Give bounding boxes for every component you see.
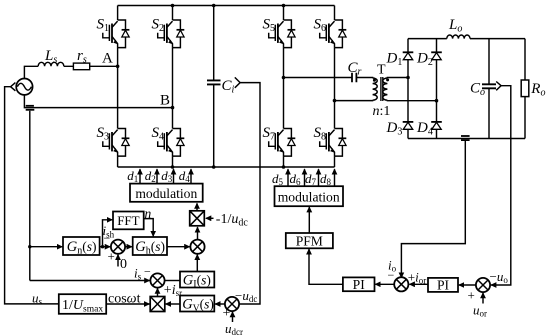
svg-text:n: n <box>145 206 152 221</box>
junction D1 D3 secondary <box>406 76 410 80</box>
wire Gh to multiplier2 <box>167 246 190 248</box>
wire secondary bottom to D leg <box>387 99 436 102</box>
svg-text:uor: uor <box>473 303 487 319</box>
node B <box>160 93 174 110</box>
wire summer udc to GV <box>215 303 225 305</box>
square multiplier -1/udc <box>190 211 205 226</box>
svg-text:D4: D4 <box>416 120 433 138</box>
wire rectifier top rail <box>408 38 525 40</box>
wire secondary top to D leg <box>387 77 408 80</box>
svg-text:T: T <box>377 63 386 78</box>
wire udc sense down <box>239 83 260 304</box>
transistor S4 <box>152 125 185 156</box>
gate drive arrows d1-d4 <box>140 169 191 183</box>
diode D4 <box>416 120 442 138</box>
gate signal labels d5 d6 d7 d8 <box>272 171 332 187</box>
summer3 circle-x <box>150 273 164 287</box>
svg-text:n:1: n:1 <box>373 104 391 119</box>
block Gn(s) <box>63 237 100 257</box>
udcr reference input <box>223 306 244 336</box>
wire source top to node A <box>24 66 117 78</box>
wire PFM to modulation2 <box>308 207 310 233</box>
svg-text:d5: d5 <box>272 171 284 187</box>
gate drive arrows d5-d8 <box>288 169 335 186</box>
junction bottom rail S7 leg <box>282 165 286 169</box>
wire leg2 bottom <box>172 156 174 167</box>
capacitor Ci <box>207 6 235 168</box>
modulation box 1 <box>130 184 203 202</box>
wire GV to square multiplier cos <box>166 303 180 305</box>
wire us sense: tap down left column <box>5 87 58 304</box>
wire GI up to multiplier2 <box>196 255 198 272</box>
svg-text:S4: S4 <box>152 125 165 143</box>
svg-text:us: us <box>32 291 43 307</box>
svg-text:PI: PI <box>353 277 366 292</box>
junction leg4 mid node <box>333 99 337 103</box>
wire leg4 mid <box>334 48 336 129</box>
wire D1 leg <box>407 39 409 78</box>
block PI 1 <box>343 277 375 292</box>
svg-text:−: − <box>388 268 395 282</box>
wire D3 leg <box>407 78 409 139</box>
svg-text:+: + <box>468 288 475 303</box>
wire leg2 collector <box>172 6 174 21</box>
diode D3 <box>386 120 414 138</box>
svg-text:d4: d4 <box>179 168 191 184</box>
wire PI1 to PFM <box>309 249 343 284</box>
wire primary bottom to bridge2 <box>335 99 373 101</box>
svg-text:A: A <box>102 51 113 67</box>
svg-text:S5: S5 <box>263 17 276 35</box>
node A <box>102 51 119 69</box>
transistor S3 <box>97 125 130 156</box>
svg-text:−: − <box>144 265 151 279</box>
svg-text:-1/udc: -1/udc <box>216 212 249 229</box>
wire leg4 collector <box>334 6 336 21</box>
svg-text:Gh(s): Gh(s) <box>135 239 165 257</box>
label ish with minus <box>103 223 115 245</box>
junction leg3 mid node <box>282 76 286 80</box>
svg-text:S6: S6 <box>314 17 327 35</box>
capacitor Co <box>470 39 496 139</box>
junction top rail S5 leg <box>282 4 286 8</box>
wire leg4 bottom <box>334 156 336 167</box>
modulation box 2 <box>275 186 344 206</box>
svg-text:PFM: PFM <box>296 234 323 249</box>
wire uo sense down <box>491 86 511 285</box>
wire PI2 to summer io <box>410 283 429 285</box>
wire multiplier2 up to square multiplier <box>197 227 199 239</box>
svg-text:D2: D2 <box>416 51 433 69</box>
label -1/udc with arrow <box>206 212 248 229</box>
svg-text:GV(s): GV(s) <box>182 297 214 315</box>
voltage tap at Ci for udc <box>235 77 240 87</box>
wire Usmax to square multiplier cos <box>106 303 149 305</box>
wire rectifier bottom rail <box>408 138 525 140</box>
wire D4 leg <box>436 101 438 139</box>
svg-text:d8: d8 <box>320 171 332 187</box>
svg-text:S8: S8 <box>314 125 327 143</box>
wire summer io to PI1 <box>375 283 394 285</box>
wire is sense down <box>29 111 31 281</box>
top dc rail <box>118 5 335 7</box>
capacitor Cr <box>348 60 373 82</box>
current sensor on output rail <box>461 135 470 137</box>
square multiplier cos <box>150 297 165 312</box>
svg-text:Ls: Ls <box>44 48 57 66</box>
svg-text:B: B <box>160 93 170 109</box>
wire leg3 bottom <box>283 156 285 167</box>
voltage tap at source for us <box>11 83 16 91</box>
wire isr up to summer3 <box>157 288 159 296</box>
block GV(s) <box>180 296 214 315</box>
svg-text:Lo: Lo <box>448 17 462 35</box>
svg-text:+: + <box>108 249 115 264</box>
transistor S7 <box>263 125 296 156</box>
wire square multiplier to modulation1 <box>196 203 198 210</box>
svg-text:−uo: −uo <box>490 269 509 285</box>
wire leg3 collector <box>283 6 285 21</box>
wire io sense down <box>401 141 465 278</box>
junction D2 D4 secondary <box>435 99 439 103</box>
junction top rail S2 leg <box>171 4 175 8</box>
svg-text:D3: D3 <box>386 120 403 138</box>
wire leg3 mid <box>283 48 285 129</box>
wire source bottom to node B <box>24 95 172 108</box>
label is with minus <box>134 265 151 282</box>
wire summer uo to PI2 <box>459 284 476 286</box>
svg-text:0: 0 <box>120 257 127 272</box>
svg-text:d6: d6 <box>290 171 302 187</box>
resistor rs <box>73 63 89 70</box>
wire summer3 to GI <box>165 280 180 282</box>
wire is row to summer3 <box>30 280 150 282</box>
svg-text:+: + <box>223 306 231 321</box>
wire leg2 mid through B <box>172 48 174 129</box>
svg-text:+ior: +ior <box>408 270 426 286</box>
zero reference input <box>108 249 128 272</box>
wire summer1 to Gh <box>125 246 132 248</box>
svg-text:−: − <box>104 231 111 245</box>
ac source Vs <box>16 79 32 95</box>
junction bottom rail S4 leg <box>171 165 175 169</box>
svg-text:S2: S2 <box>152 17 165 35</box>
label io with minus <box>388 258 397 283</box>
svg-text:Ci: Ci <box>222 78 235 96</box>
junction is to Gn <box>28 245 31 248</box>
block FFT <box>113 212 144 230</box>
svg-text:S3: S3 <box>97 125 110 143</box>
block Gh(s) <box>133 237 167 257</box>
svg-text:−udc: −udc <box>235 288 257 304</box>
junction top rail Ci leg <box>212 4 216 8</box>
svg-text:modulation: modulation <box>278 190 340 205</box>
summer udc circle-x <box>225 297 239 311</box>
summer uo circle-x <box>476 278 490 292</box>
block 1/Usmax <box>59 294 106 314</box>
summer1 circle-x <box>111 240 125 254</box>
wire leg1 collector <box>117 6 119 21</box>
block GI(s) <box>180 272 214 291</box>
summer io circle-x <box>394 277 408 291</box>
transistor S6 <box>314 17 347 48</box>
voltage tap at Co for uo <box>496 82 501 91</box>
svg-text:Ro: Ro <box>530 81 545 99</box>
wire D2 leg <box>436 39 438 101</box>
svg-text:GI(s): GI(s) <box>183 273 211 291</box>
wire n from FFT to Gh <box>144 219 154 237</box>
svg-text:modulation: modulation <box>135 186 197 201</box>
transistor S5 <box>263 17 296 48</box>
wire is into Gn <box>30 246 62 248</box>
svg-text:udcr: udcr <box>225 321 243 336</box>
svg-text:rs: rs <box>77 48 87 66</box>
wire Gn to summer1 <box>100 246 111 248</box>
svg-text:d2: d2 <box>145 168 156 184</box>
svg-text:is: is <box>134 266 142 282</box>
block PFM <box>286 233 333 249</box>
svg-text:D1: D1 <box>386 51 403 69</box>
current sensor on source return <box>26 105 34 107</box>
junction ish node <box>101 245 104 248</box>
svg-text:d7: d7 <box>305 171 317 187</box>
junction bottom rail Ci leg <box>212 165 216 169</box>
diode D1 <box>386 51 414 69</box>
bottom dc rail <box>118 166 335 168</box>
wire leg1 mid through A <box>117 48 119 129</box>
wire bridge2 mid to Cr <box>284 77 353 79</box>
diode D2 <box>416 51 442 69</box>
transistor S2 <box>152 17 185 48</box>
svg-text:d1: d1 <box>127 168 138 184</box>
wire leg1 bottom <box>117 156 119 167</box>
gate signal labels d1 d2 d3 d4 <box>127 168 190 184</box>
svg-text:1/Usmax: 1/Usmax <box>62 298 103 315</box>
svg-text:PI: PI <box>437 277 450 292</box>
resistor Ro <box>521 39 545 139</box>
svg-text:d3: d3 <box>161 168 173 184</box>
transformer T <box>373 63 391 120</box>
inductor Lo <box>447 35 470 39</box>
svg-text:cosωt: cosωt <box>108 292 141 307</box>
transistor S1 <box>97 17 130 48</box>
svg-text:Cr: Cr <box>348 60 362 78</box>
uor reference input <box>468 288 488 319</box>
inductor Ls <box>38 62 64 66</box>
svg-text:S7: S7 <box>263 125 276 143</box>
svg-text:FFT: FFT <box>117 213 139 228</box>
block PI 2 <box>428 277 458 292</box>
multiplier2 circle-x <box>190 240 204 254</box>
wire ish tap to FFT <box>103 220 113 247</box>
transistor S8 <box>314 125 347 156</box>
svg-text:S1: S1 <box>97 17 110 35</box>
svg-text:Co: Co <box>470 81 485 99</box>
svg-text:Gn(s): Gn(s) <box>67 239 97 257</box>
